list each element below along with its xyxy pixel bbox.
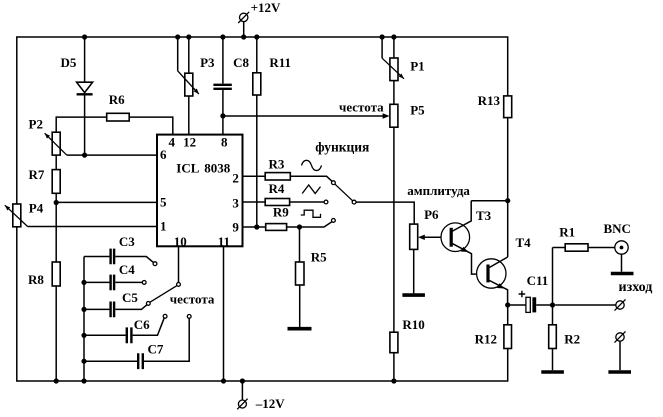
node -12V on rail [240,378,245,383]
wire R8 top [55,203,57,263]
resistor R10 [390,317,425,381]
node P3 wiper rail [175,34,180,39]
potentiometer P4 [5,200,44,226]
potentiometer P3 [178,37,215,135]
node bus C6 [81,333,86,338]
svg-text:P4: P4 [29,200,44,215]
svg-text:4: 4 [168,135,175,150]
svg-text:R3: R3 [269,157,285,172]
node C8 / pin 8 / frequency line [220,113,225,118]
svg-text:R6: R6 [109,92,125,107]
op-amp U1 ICL 8038 box [157,135,243,247]
svg-text:P3: P3 [200,55,215,70]
wire left border lower segment (from P4 bottom) [16,227,18,382]
sine wave symbol [302,160,322,170]
node R10 bottom rail [391,378,396,383]
pin 10 label [174,234,187,249]
svg-text:10: 10 [174,234,187,249]
node R11 to pin 9 net [254,224,259,229]
svg-text:R10: R10 [402,317,424,332]
potentiometer P6 [410,207,450,293]
terminal +12V [238,0,281,37]
node C11 / R2 / R1 [550,302,555,307]
ground (output terminal) [608,370,631,374]
potentiometer P1 [382,37,425,104]
node P1 wiper rail [380,34,385,39]
pin 1 label [160,219,167,234]
switch contact R3 [332,181,336,185]
svg-text:2: 2 [232,171,239,186]
switch contact C5 [146,302,150,306]
svg-text:–12V: –12V [255,396,285,411]
connector BNC [604,221,631,272]
node bus C7 [81,359,86,364]
wire left border upper segment (to P4 top) [16,36,18,204]
svg-text:честота: честота [170,292,215,307]
resistor R5 [296,227,328,327]
label frequency (top) [339,99,384,114]
ground (BNC) [611,272,634,276]
svg-text:амплитуда: амплитуда [407,183,470,198]
wire R6 to P2 top [55,116,57,132]
svg-text:R11: R11 [269,55,291,70]
resistor R2 [549,305,580,370]
ground (P6) [402,293,425,297]
switch contact C6 [163,314,167,318]
terminal -12V [237,381,285,411]
node D5 top rail [82,34,87,39]
svg-text:R7: R7 [29,167,45,182]
svg-text:P5: P5 [410,103,425,118]
resistor R9 [243,205,332,231]
svg-text:6: 6 [160,147,167,162]
svg-text:честота: честота [339,99,384,114]
wire capacitor bus [83,257,85,382]
svg-text:R4: R4 [269,181,285,196]
svg-text:8: 8 [221,135,228,150]
switch contact R4 [324,200,328,204]
svg-text:R13: R13 [478,93,501,108]
ground (R5) [288,327,312,331]
node C8 top rail [220,34,225,39]
label amplitude [407,183,470,198]
switch contact C7 [187,315,191,319]
ground (R2) [541,370,564,374]
svg-text:C3: C3 [119,234,135,249]
svg-text:P2: P2 [29,117,43,132]
pin 8 label [221,135,228,150]
capacitor C11 (electrolytic) [508,273,553,312]
wire right column from rail to R13 [507,36,509,96]
svg-text:T3: T3 [476,208,492,223]
capacitor C3 [84,234,153,264]
wire top +12V rail [17,36,508,38]
svg-text:T4: T4 [516,235,532,250]
label function [315,140,369,155]
node bus C5 [81,307,86,312]
switch contact R9 [332,219,336,223]
wire pin 10 to frequency switch pivot [178,246,180,282]
pin 11 label [218,234,230,249]
node bus C4 [81,280,86,285]
resistor R8 [28,262,60,381]
wire P4 wiper to pin 1 [28,226,157,228]
resistor R13 [478,93,512,257]
node R9/R5 junction [297,224,302,229]
svg-text:R9: R9 [273,205,289,220]
capacitor C6 [84,317,164,343]
switch contact C3 [153,262,157,266]
svg-text:ICL: ICL [176,160,199,175]
svg-text:8038: 8038 [204,160,231,175]
potentiometer P5 [390,103,425,128]
capacitor C5 [84,290,147,317]
label frequency (switch) [170,292,215,307]
svg-text:P1: P1 [410,58,424,73]
svg-text:C4: C4 [119,262,135,277]
wire P2 bottom to R7 [55,155,57,170]
svg-text:R5: R5 [311,250,327,265]
terminal output signal [615,299,626,310]
diode D5 [61,37,93,155]
svg-text:C6: C6 [134,317,150,332]
pin 5 label [160,195,167,210]
svg-text:C5: C5 [122,290,138,305]
node bus rail [81,378,86,383]
svg-text:R1: R1 [559,224,575,239]
resistor R4 [243,181,324,206]
wire frequency control line with arrow to P5 [223,113,390,119]
wire output to terminal [555,304,616,306]
triangle wave symbol [302,185,320,194]
node +12V on rail [241,34,246,39]
resistor R7 [29,167,61,203]
wire pin 5 [56,201,157,203]
wire pin 11 to bottom rail [223,246,225,381]
wire bottom -12V rail [17,380,508,382]
node pin 11 rail [221,378,226,383]
transistor T3 [441,201,492,274]
transistor T4 [477,235,532,305]
pin 2 label [232,171,239,186]
function switch pivot and arm [335,184,356,204]
svg-text:BNC: BNC [604,221,631,236]
svg-text:изход: изход [619,280,653,295]
svg-text:R2: R2 [564,332,580,347]
node P3 top rail [186,34,191,39]
svg-text:R8: R8 [28,272,44,287]
svg-text:C7: C7 [148,342,164,357]
svg-text:3: 3 [232,196,239,211]
pin 4 label [168,135,175,150]
svg-text:5: 5 [160,195,167,210]
resistor R6 [56,92,173,121]
pin 12 label [183,135,196,150]
label output [619,280,653,295]
node D5 to pin6 net [82,153,87,158]
wire P2 wiper to pin 6 [67,154,157,156]
square wave symbol [301,210,321,217]
potentiometer P2 [29,117,67,155]
svg-text:R12: R12 [475,332,497,347]
pin 3 label [232,196,239,211]
svg-text:9: 9 [232,220,239,235]
svg-text:1: 1 [160,219,167,234]
resistor R1 [553,224,615,305]
node P1 top rail [391,34,396,39]
wire P5 bottom to R10 [393,127,395,332]
pin 6 label [160,147,167,162]
svg-text:12: 12 [183,135,196,150]
node T4 emitter / C11 [505,302,510,307]
svg-text:функция: функция [315,140,369,155]
capacitor C4 [84,262,142,290]
resistor R11 [253,37,291,227]
capacitor C8 [213,37,249,135]
wire switch common to P6 [356,202,414,224]
node R7/R8/pin5 [54,200,59,205]
pin 9 label [232,220,239,235]
frequency switch pivot and arm [150,283,180,303]
svg-text:P6: P6 [424,207,439,222]
svg-text:+12V: +12V [251,0,281,15]
resistor R3 [243,157,332,182]
switch contact C4 [142,281,146,285]
terminal output ground [615,331,626,370]
svg-text:C11: C11 [527,273,549,288]
node T3 collector / R13 column [505,198,510,203]
node R11 top rail [254,34,259,39]
capacitor C7 [84,318,189,369]
resistor R12 [475,305,512,382]
wire T3 collector to R13 column [471,200,508,202]
svg-text:D5: D5 [61,55,77,70]
wire pin4 drop [172,116,174,134]
svg-text:C8: C8 [233,55,249,70]
node R8 bottom rail [54,378,59,383]
